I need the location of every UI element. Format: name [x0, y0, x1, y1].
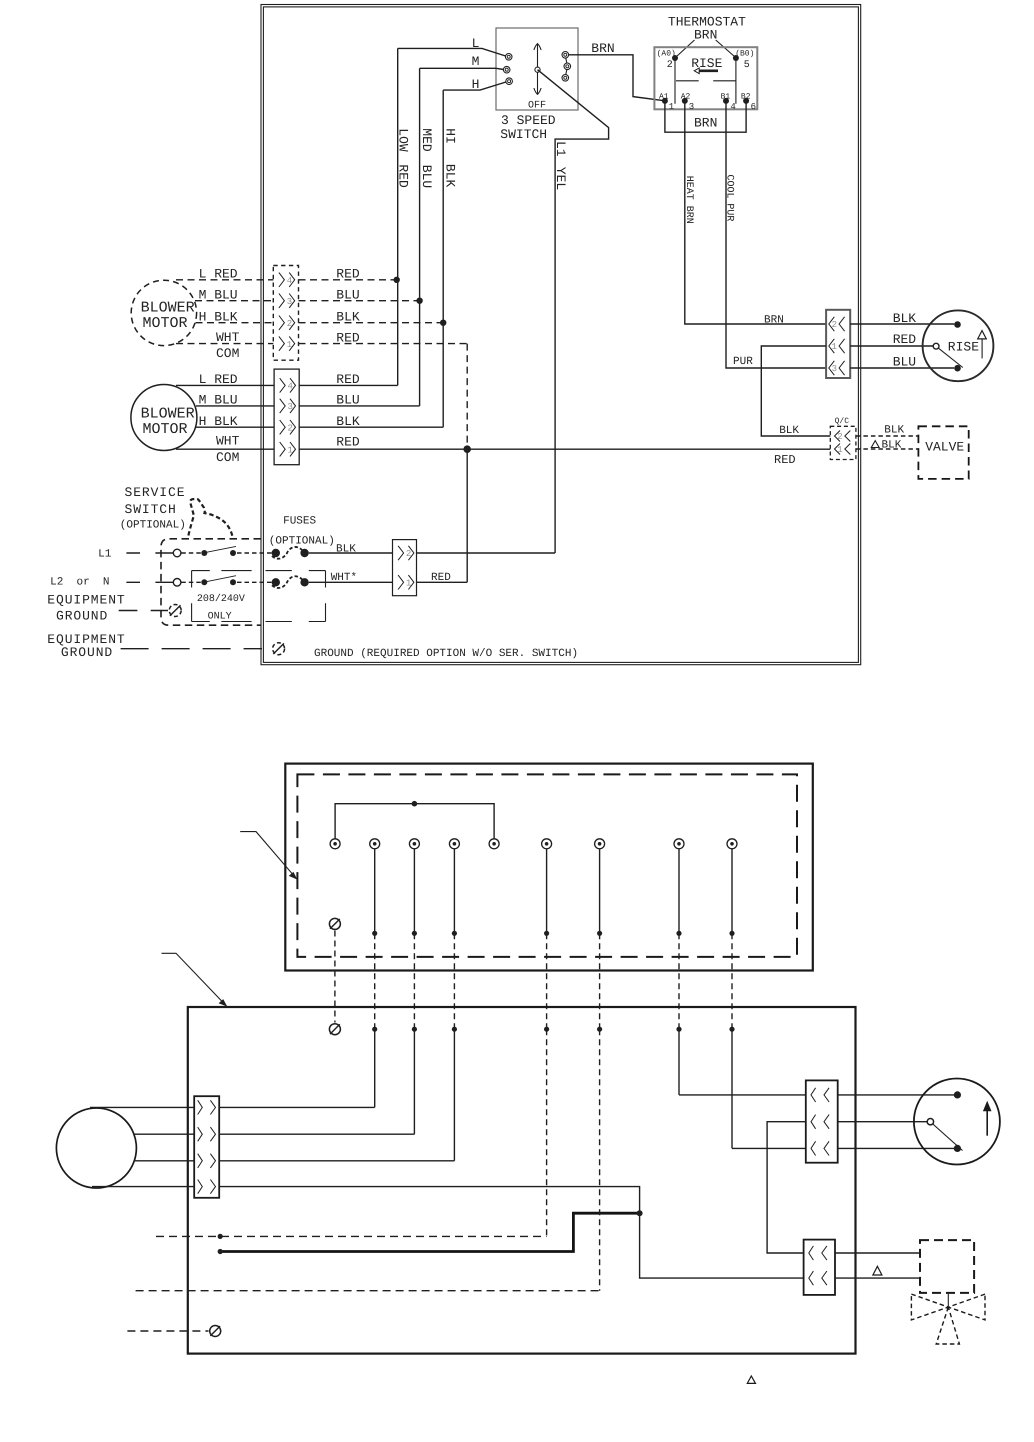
- svg-text:Q/C: Q/C: [835, 417, 850, 426]
- svg-text:H BLK: H BLK: [199, 310, 238, 325]
- svg-text:B1: B1: [721, 92, 731, 101]
- svg-text:MOTOR: MOTOR: [143, 421, 188, 438]
- svg-text:4: 4: [288, 382, 293, 392]
- svg-text:3: 3: [287, 297, 292, 307]
- svg-text:3: 3: [689, 102, 694, 112]
- svg-text:1: 1: [288, 445, 293, 455]
- svg-text:M BLU: M BLU: [199, 393, 238, 408]
- svg-text:3 SPEED: 3 SPEED: [501, 113, 556, 128]
- svg-text:BLK: BLK: [893, 311, 917, 326]
- svg-text:RED: RED: [336, 434, 360, 449]
- svg-text:RED: RED: [893, 332, 917, 347]
- svg-text:SWITCH: SWITCH: [500, 127, 547, 142]
- svg-text:VALVE: VALVE: [925, 440, 964, 455]
- svg-text:2: 2: [288, 423, 293, 433]
- svg-text:M BLU: M BLU: [199, 288, 238, 303]
- svg-text:A2: A2: [681, 92, 691, 101]
- svg-text:(OPTIONAL): (OPTIONAL): [120, 520, 186, 532]
- svg-text:BRN: BRN: [764, 314, 784, 326]
- svg-text:1: 1: [287, 340, 292, 350]
- svg-text:BLK: BLK: [336, 544, 356, 556]
- svg-text:2: 2: [406, 549, 411, 559]
- svg-text:1: 1: [669, 102, 674, 112]
- svg-text:OFF: OFF: [528, 100, 546, 111]
- svg-text:BLU: BLU: [419, 165, 434, 188]
- svg-text:BRN: BRN: [591, 41, 614, 56]
- svg-text:MED: MED: [419, 128, 434, 152]
- svg-text:BLOWER: BLOWER: [141, 405, 195, 422]
- svg-text:208/240V: 208/240V: [197, 593, 245, 605]
- svg-text:5: 5: [744, 60, 750, 71]
- svg-text:GROUND (REQUIRED OPTION W/O SE: GROUND (REQUIRED OPTION W/O SER. SWITCH): [314, 648, 578, 660]
- svg-text:2: 2: [832, 320, 837, 330]
- svg-text:RED: RED: [395, 164, 410, 188]
- svg-text:L2 or N: L2 or N: [50, 577, 109, 589]
- svg-text:WHT*: WHT*: [331, 572, 357, 584]
- svg-text:SWITCH: SWITCH: [125, 502, 177, 517]
- svg-text:SERVICE: SERVICE: [125, 485, 186, 500]
- svg-text:RED: RED: [336, 372, 360, 387]
- svg-text:H BLK: H BLK: [199, 414, 238, 429]
- svg-text:BLK: BLK: [882, 439, 902, 451]
- svg-text:M: M: [472, 54, 480, 69]
- svg-text:BLK: BLK: [443, 164, 458, 188]
- svg-text:L RED: L RED: [199, 267, 238, 282]
- svg-text:PUR: PUR: [723, 203, 734, 221]
- svg-text:BRN: BRN: [694, 116, 717, 131]
- svg-text:RED: RED: [431, 572, 451, 584]
- svg-text:BLK: BLK: [884, 425, 904, 437]
- svg-text:PUR: PUR: [733, 356, 753, 368]
- svg-text:BLK: BLK: [336, 310, 360, 325]
- svg-text:B2: B2: [741, 92, 751, 101]
- svg-text:ONLY: ONLY: [208, 612, 232, 623]
- svg-text:BLU: BLU: [893, 355, 916, 370]
- svg-text:WHT: WHT: [216, 330, 240, 345]
- svg-text:A1: A1: [659, 92, 669, 101]
- svg-text:WHT: WHT: [216, 434, 240, 449]
- svg-text:GROUND: GROUND: [61, 645, 113, 660]
- svg-text:FUSES: FUSES: [283, 516, 316, 528]
- svg-text:RISE: RISE: [948, 340, 979, 355]
- svg-text:2: 2: [667, 60, 673, 71]
- svg-text:L RED: L RED: [199, 372, 238, 387]
- svg-text:3: 3: [832, 364, 837, 374]
- svg-text:L1: L1: [98, 548, 112, 560]
- svg-text:L1: L1: [553, 141, 568, 157]
- svg-text:EQUIPMENT: EQUIPMENT: [47, 593, 125, 608]
- svg-text:BLK: BLK: [336, 414, 360, 429]
- svg-text:HEAT: HEAT: [683, 176, 694, 200]
- svg-text:COM: COM: [216, 450, 239, 465]
- svg-text:LOW: LOW: [395, 128, 410, 152]
- svg-text:1: 1: [837, 445, 842, 455]
- svg-text:COM: COM: [216, 346, 239, 361]
- svg-text:(OPTIONAL): (OPTIONAL): [269, 535, 335, 547]
- svg-text:1: 1: [406, 579, 411, 589]
- svg-text:BLU: BLU: [336, 393, 359, 408]
- svg-text:1: 1: [832, 342, 837, 352]
- svg-text:GROUND: GROUND: [56, 609, 108, 624]
- svg-text:BRN: BRN: [694, 28, 717, 43]
- svg-text:6: 6: [751, 102, 756, 112]
- svg-text:2: 2: [287, 319, 292, 329]
- svg-text:MOTOR: MOTOR: [143, 315, 188, 332]
- svg-text:4: 4: [287, 276, 292, 286]
- svg-text:BLU: BLU: [336, 288, 359, 303]
- svg-text:RED: RED: [774, 453, 796, 467]
- svg-text:BRN: BRN: [683, 206, 694, 224]
- svg-text:HI: HI: [443, 128, 458, 144]
- svg-text:4: 4: [730, 102, 735, 112]
- svg-text:BLK: BLK: [779, 425, 799, 437]
- svg-text:YEL: YEL: [553, 167, 568, 190]
- svg-text:COOL: COOL: [723, 175, 734, 199]
- svg-text:RISE: RISE: [691, 56, 722, 71]
- svg-text:2: 2: [837, 432, 842, 442]
- svg-text:RED: RED: [336, 267, 360, 282]
- svg-text:RED: RED: [336, 331, 360, 346]
- svg-text:3: 3: [288, 402, 293, 412]
